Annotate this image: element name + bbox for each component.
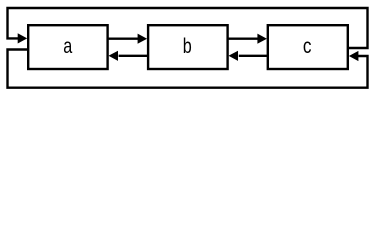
svg-text:b: b xyxy=(183,34,192,58)
svg-text:c: c xyxy=(303,34,312,58)
svg-text:a: a xyxy=(63,34,72,58)
